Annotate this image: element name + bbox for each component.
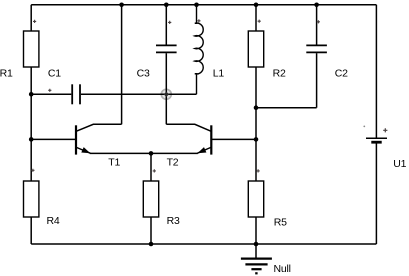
wire emitter node down to R3 (150, 153, 152, 181)
node selected tank node highlight disc (161, 89, 171, 99)
transistor T2 (167, 125, 212, 168)
node C3 junction on top rail (164, 3, 169, 8)
wire T1 collector vertical (121, 5, 123, 125)
pin marker L1 (197, 19, 200, 22)
wire T1 collector horizontal and diagonal (76, 124, 121, 131)
transistor T1 (76, 125, 121, 168)
svg-text:R1: R1 (0, 68, 13, 80)
wire T2 base lead (211, 138, 256, 140)
pin marker R4 (31, 169, 34, 172)
node R3 bottom junction (149, 242, 154, 247)
pin marker C1 (48, 89, 51, 92)
pin marker C3 (168, 21, 171, 24)
node ground junction on bottom rail (254, 242, 259, 247)
wire left rail R1 bottom to R4 top (30, 67, 32, 181)
ground Null (241, 244, 291, 275)
svg-text:L1: L1 (213, 68, 225, 80)
pin marker R2 (258, 20, 261, 23)
capacitor C3 (137, 5, 177, 95)
resistor R2 (248, 5, 286, 108)
stray dot near U1 (363, 126, 365, 128)
node R2 junction on top rail (254, 3, 259, 8)
svg-text:T1: T1 (108, 156, 120, 168)
svg-text:R3: R3 (167, 215, 180, 227)
wire T1 base lead (31, 138, 76, 140)
svg-text:C2: C2 (335, 67, 348, 79)
node R1-C1 junction on left rail (29, 92, 34, 97)
node T1 base junction on left rail (29, 137, 34, 142)
battery U1 (366, 138, 407, 170)
node common emitter junction (149, 151, 154, 156)
svg-text:R5: R5 (274, 216, 287, 228)
pin marker R1 (33, 20, 36, 23)
svg-text:R4: R4 (47, 215, 60, 227)
wire C2 bottom to R2 node (256, 107, 317, 109)
inductor L1 (195, 5, 225, 95)
svg-text:Null: Null (274, 263, 291, 275)
node R2-C2 junction (254, 105, 259, 110)
node T1 collector junction on top rail (119, 3, 124, 8)
node L1 junction on top rail (194, 3, 199, 8)
wire top supply rail (31, 4, 376, 6)
wire L1 bottom to tank node (166, 93, 196, 95)
resistor R5 (248, 181, 287, 244)
capacitor C2 (306, 5, 348, 108)
node selected tank node junction (164, 92, 169, 97)
wire T2 emitter (151, 152, 198, 154)
wire right rail battery to bottom rail (375, 143, 377, 244)
wire left rail R4 bottom to bottom rail (30, 217, 32, 244)
svg-text:U1: U1 (393, 158, 406, 170)
pin marker U1 (383, 128, 387, 132)
wire right rail top to battery (375, 5, 377, 138)
svg-text:T2: T2 (167, 156, 179, 168)
wire T2 base node down to R5 (255, 139, 257, 181)
capacitor C1 (31, 68, 166, 105)
resistor R3 (143, 181, 180, 244)
pin marker C2 (317, 20, 320, 23)
resistor R4 (24, 181, 60, 227)
node C2 junction on top rail (314, 3, 319, 8)
wire T1 emitter to common node (90, 152, 151, 154)
resistor R1 (0, 31, 39, 80)
wire T2 collector vertical to tank node (165, 94, 167, 124)
svg-text:C3: C3 (137, 67, 150, 79)
wire left rail top segment (30, 5, 32, 31)
svg-text:C1: C1 (48, 68, 61, 80)
wire T2 collector diagonal and horizontal (166, 124, 211, 131)
pin marker R5 (257, 169, 260, 172)
node T2 base junction (254, 137, 259, 142)
wire R2 node down to T2 base node (255, 108, 257, 140)
pin marker R3 (153, 169, 156, 172)
svg-text:R2: R2 (273, 67, 286, 79)
wire bottom rail (31, 243, 376, 245)
